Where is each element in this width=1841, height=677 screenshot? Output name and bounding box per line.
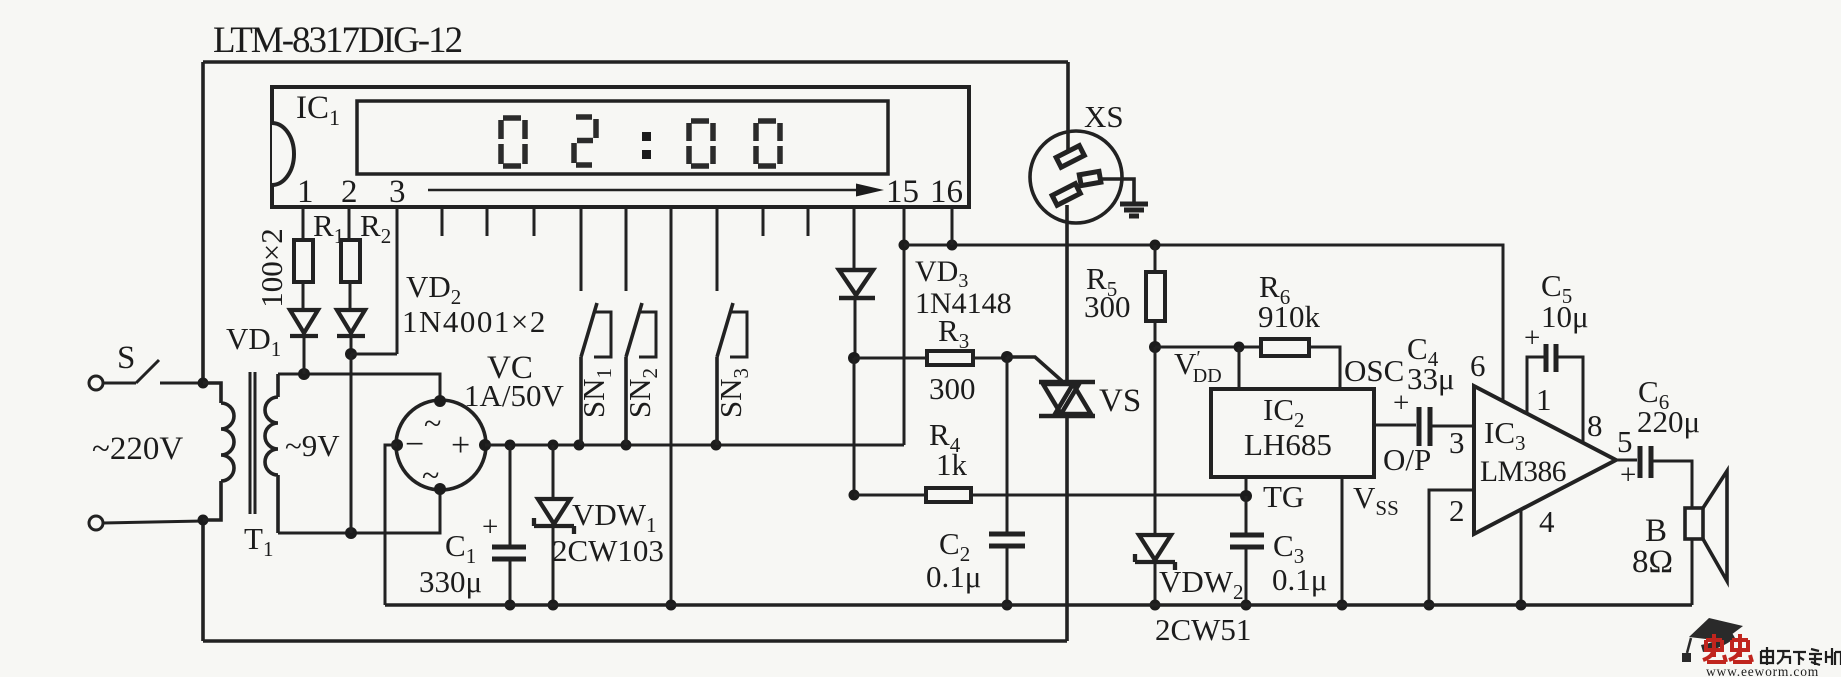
wire pin15 line to IC3 pin6	[904, 245, 1503, 401]
diode VD2	[337, 310, 365, 336]
wire XS earth	[1100, 179, 1134, 203]
zener VDW1 wire bottom	[552, 525, 555, 605]
zener VDW1 wire top	[552, 445, 555, 499]
node VDW1 ground	[548, 600, 559, 611]
wire speaker to ground bus	[1691, 539, 1694, 605]
resistor R2	[341, 240, 360, 282]
node rail SN3	[711, 440, 722, 451]
node bridge top	[434, 395, 446, 407]
wire TG pin	[1245, 477, 1248, 496]
node bottom junction	[198, 515, 209, 526]
wire pin2	[1429, 490, 1474, 605]
capacitor C2 wire top	[1006, 357, 1009, 533]
wire XS to VS triac	[1065, 205, 1069, 382]
wire pin5 to C6	[1616, 459, 1637, 462]
wire pin1 to R1	[302, 207, 305, 240]
watermark site name	[1761, 647, 1841, 665]
svg-text:3: 3	[389, 174, 406, 210]
wire mains loop bottom edge	[203, 639, 1067, 643]
IC1 pin stubs 11,12	[763, 207, 808, 236]
bridge rectifier VC	[396, 400, 486, 490]
svg-text:VDW2: VDW2	[1159, 564, 1244, 604]
node secondary bottom tap	[345, 527, 357, 539]
node C3 ground	[1241, 600, 1252, 611]
wire node to pin3	[351, 207, 397, 354]
svg-text:1A/50V: 1A/50V	[464, 378, 565, 413]
wire R4 to TG	[971, 494, 1246, 497]
node C1 ground	[505, 600, 516, 611]
wire VS to bottom edge	[1065, 416, 1069, 641]
svg-text:S: S	[117, 340, 135, 376]
wire bottom terminal to loop	[103, 521, 203, 523]
node R4 left	[849, 490, 860, 501]
wire pin16 stub	[951, 207, 954, 245]
wire pin14 to VD3	[853, 207, 856, 269]
svg-text:100×2: 100×2	[254, 228, 289, 307]
capacitor C5 plates	[1546, 344, 1556, 372]
svg-text:O/P: O/P	[1383, 442, 1431, 477]
svg-text:+: +	[1524, 322, 1540, 354]
node R5 top	[1150, 240, 1161, 251]
svg-text:OSC: OSC	[1344, 353, 1404, 388]
ground symbol	[1120, 204, 1148, 216]
wire bridge left to ground bus	[385, 445, 397, 605]
switch SN1 blade	[581, 303, 597, 445]
svg-text:4: 4	[1539, 504, 1555, 539]
wire VD2 to node	[350, 336, 353, 354]
resistor R5	[1146, 272, 1165, 321]
svg-text:1: 1	[297, 174, 314, 210]
wire C5 to pin8	[1557, 357, 1583, 444]
node pin16	[947, 240, 958, 251]
svg-text:15: 15	[886, 174, 919, 210]
wire secondary top to bridge	[278, 374, 440, 401]
transformer T1 primary winding	[203, 383, 234, 520]
wire VDW2 line	[1154, 347, 1157, 535]
wire mains loop top edge	[203, 60, 1068, 64]
resistor R3	[927, 351, 973, 365]
wire pin2 to R2	[348, 207, 351, 240]
socket XS upper prong	[1056, 146, 1084, 168]
transformer T1 secondary winding	[265, 374, 278, 533]
node pin9 ground	[666, 600, 677, 611]
wire C6 to speaker	[1652, 461, 1692, 508]
node VD1 tap	[298, 368, 310, 380]
resistor R1	[294, 240, 313, 282]
watermark cap board	[1689, 618, 1743, 641]
display digit 0	[501, 118, 525, 166]
svg-text:1k: 1k	[936, 447, 968, 482]
diode VD3	[839, 270, 875, 298]
display digit 0	[756, 121, 780, 166]
svg-text:VS: VS	[1099, 383, 1141, 419]
svg-text:2CW103: 2CW103	[552, 533, 664, 568]
node pin15 top line	[899, 240, 910, 251]
capacitor C2 plates	[989, 534, 1025, 546]
diode VD1	[290, 310, 318, 336]
svg-text:2CW51: 2CW51	[1155, 612, 1251, 647]
node VD2 cathode	[345, 348, 357, 360]
wire R5 top	[1154, 245, 1157, 272]
svg-text:~: ~	[424, 405, 441, 441]
svg-text:TG: TG	[1263, 479, 1304, 514]
switch SN1 stub	[580, 207, 583, 291]
resistor R4	[926, 488, 971, 502]
op-amp timer IC2 box	[1211, 389, 1374, 477]
switch SN1 bracket	[594, 312, 611, 357]
node rail VDW1	[548, 440, 559, 451]
svg-text:3: 3	[1449, 425, 1465, 460]
watermark tassel	[1687, 638, 1691, 653]
wire secondary bottom to bridge	[278, 489, 440, 533]
node VDD pin	[1234, 342, 1245, 353]
wire VD3 to R3 node	[854, 299, 857, 358]
triac VS	[1039, 382, 1095, 416]
svg-text:~9V: ~9V	[285, 428, 340, 463]
capacitor C3 wire bottom	[1245, 548, 1248, 605]
node bridge right	[479, 439, 491, 451]
svg-text:8: 8	[1587, 408, 1603, 443]
op-amp IC3 triangle	[1474, 386, 1616, 534]
wire R2 to VD2	[349, 282, 352, 310]
wire VD3 node down to R4	[853, 358, 856, 495]
switch S terminal top	[89, 376, 103, 390]
svg-text:5: 5	[1617, 424, 1633, 459]
zener VDW2	[1135, 535, 1175, 570]
socket XS circle	[1030, 131, 1122, 223]
svg-text:www.eeworm.com: www.eeworm.com	[1706, 664, 1819, 677]
socket XS lower prong	[1052, 184, 1080, 206]
svg-text:8Ω: 8Ω	[1632, 544, 1673, 580]
socket XS middle prong	[1079, 171, 1101, 185]
svg-text:LH685: LH685	[1244, 427, 1332, 462]
node rail SN1	[574, 440, 585, 451]
wire C4 to IC3	[1431, 425, 1474, 428]
node VD3 bottom	[848, 352, 860, 364]
switch SN2 stub	[625, 207, 628, 291]
svg-text:VDW1: VDW1	[572, 497, 657, 537]
svg-text:910k: 910k	[1258, 299, 1321, 334]
IC1 D-notch	[272, 123, 294, 185]
switch SN3 stub	[716, 207, 719, 291]
svg-text:300: 300	[929, 371, 976, 406]
svg-text:1N4148: 1N4148	[915, 287, 1012, 320]
svg-text:33μ: 33μ	[1407, 361, 1455, 396]
wire VDW2 bottom	[1154, 561, 1157, 605]
wire O/P to C4	[1374, 424, 1416, 427]
svg-text:0.1μ: 0.1μ	[1272, 562, 1327, 597]
capacitor C6 plates	[1640, 446, 1651, 478]
svg-text:LM386: LM386	[1480, 456, 1566, 488]
wire S to loop	[160, 382, 203, 385]
wire mains right edge to XS	[1066, 62, 1070, 152]
wire +9V rail	[485, 444, 904, 447]
node bridge bottom	[434, 483, 446, 495]
wire VDD pin to IC2	[1238, 347, 1241, 389]
resistor R6	[1261, 339, 1309, 356]
svg-text:2: 2	[341, 174, 358, 210]
switch SN3 blade	[717, 303, 733, 445]
svg-text:16: 16	[930, 174, 963, 210]
wire pin9 to ground bus	[670, 207, 673, 605]
wire ground bus	[385, 603, 1692, 607]
wire pin1 up	[1527, 357, 1544, 413]
wire pin15 down to rail	[903, 207, 906, 445]
wire mains loop left edge lower	[201, 518, 205, 641]
svg-text:330μ: 330μ	[419, 564, 482, 599]
svg-text:XS: XS	[1084, 99, 1124, 134]
node pin4 ground	[1516, 600, 1527, 611]
watermark chongchong red	[1703, 634, 1752, 662]
svg-text:−: −	[405, 426, 424, 463]
svg-text:+: +	[1620, 459, 1636, 491]
svg-text:LTM-8317DIG-12: LTM-8317DIG-12	[213, 20, 462, 61]
terminal mains bottom	[89, 516, 103, 530]
capacitor C3 plates	[1230, 535, 1264, 547]
svg-text:10μ: 10μ	[1541, 299, 1589, 334]
node C2 ground	[1002, 600, 1013, 611]
wire gate to triac	[1007, 357, 1062, 381]
IC1 module box	[272, 87, 969, 207]
svg-text:0.1μ: 0.1μ	[926, 559, 981, 594]
wire VDD rail	[1155, 347, 1340, 389]
wire R5 bottom	[1154, 321, 1157, 347]
switch SN2 bracket	[639, 312, 656, 357]
node VDD	[1149, 341, 1161, 353]
wire node down to secondary bottom	[350, 354, 353, 533]
wire R4 left	[854, 494, 926, 497]
display colon	[642, 132, 651, 141]
capacitor C1 plates	[492, 547, 526, 559]
node TG	[1240, 490, 1252, 502]
node S top junction	[198, 378, 209, 389]
svg-text:6: 6	[1470, 348, 1486, 383]
svg-text:1: 1	[1536, 382, 1552, 417]
arrow pin3 to pin15	[428, 189, 860, 192]
speaker B cone	[1703, 471, 1727, 581]
transformer T1 core	[250, 372, 255, 514]
capacitor C2 wire bottom	[1006, 547, 1009, 605]
svg-text:2: 2	[1449, 493, 1465, 528]
svg-text:+: +	[451, 427, 470, 464]
display window	[357, 101, 888, 174]
node VDW2 ground	[1150, 600, 1161, 611]
display digit 2	[574, 117, 596, 165]
node VSS ground	[1337, 600, 1348, 611]
node rail C1	[505, 440, 516, 451]
wire VD1 to node	[303, 336, 306, 374]
wire to R3	[854, 357, 927, 360]
svg-text:300: 300	[1084, 289, 1131, 324]
svg-text:220μ: 220μ	[1637, 404, 1700, 439]
node rail SN2	[621, 440, 632, 451]
svg-text:~220V: ~220V	[92, 431, 183, 467]
svg-text:+: +	[482, 511, 498, 543]
capacitor C4 plates	[1419, 407, 1430, 446]
zener VDW1	[534, 499, 574, 534]
wire R1 to VD1	[302, 282, 305, 310]
capacitor C1 wire top	[509, 445, 512, 546]
wire VSS pin	[1341, 477, 1344, 605]
node R3 right	[1001, 351, 1013, 363]
speaker B frame	[1685, 508, 1703, 539]
node pin2 ground	[1424, 600, 1435, 611]
svg-text:1N4001×2: 1N4001×2	[402, 304, 547, 339]
svg-text:~: ~	[422, 457, 439, 493]
switch SN3 bracket	[730, 312, 747, 357]
display digit 0	[689, 121, 713, 166]
wire mains loop left edge upper	[201, 62, 205, 383]
wire pin4	[1520, 510, 1523, 605]
switch S blade	[103, 360, 159, 383]
node bridge left	[391, 439, 403, 451]
watermark cap band	[1701, 631, 1735, 652]
capacitor C1 wire bottom	[509, 560, 512, 605]
switch SN2 blade	[626, 303, 642, 445]
IC1 pin stubs 4,5,6	[442, 207, 534, 236]
capacitor C3 wire top	[1245, 496, 1248, 534]
wire R3 to gate node	[973, 357, 1007, 360]
